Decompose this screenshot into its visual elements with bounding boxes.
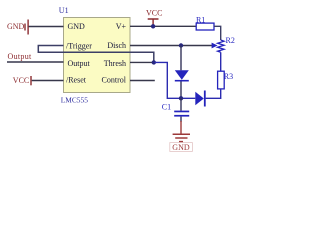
junction dot Disch / D1 column	[179, 43, 183, 47]
wire /Trigger loop to Thresh net (crosses over IC)	[38, 46, 154, 63]
svg-text:Thresh: Thresh	[104, 59, 126, 68]
R2 wiper arrow	[212, 43, 218, 49]
svg-text:U1: U1	[59, 6, 69, 15]
svg-text:LMC555: LMC555	[61, 96, 88, 105]
wire GND port to pin GND	[29, 26, 64, 28]
svg-text:Output: Output	[68, 59, 91, 68]
svg-text:GND: GND	[172, 143, 190, 152]
svg-text:VCC: VCC	[13, 76, 29, 85]
GND port symbol bars	[25, 20, 28, 35]
svg-text:V+: V+	[116, 22, 127, 31]
svg-text:Control: Control	[102, 75, 127, 84]
capacitor C1 top plate	[174, 111, 189, 113]
diode D1 (pointing down)	[175, 70, 189, 79]
svg-text:R2: R2	[226, 36, 235, 45]
op-amp U1 IC body LMC555	[64, 18, 131, 93]
svg-text:VCC: VCC	[146, 9, 162, 18]
wire R2 to R3	[220, 52, 222, 71]
svg-text:Disch: Disch	[107, 41, 126, 50]
wire VCC port to /Reset pin	[32, 80, 64, 82]
resistor R1 body	[196, 23, 214, 30]
diode D1 cathode bar	[175, 80, 189, 82]
wire Control pin stub	[130, 80, 155, 82]
VCC port symbol bar	[30, 76, 32, 85]
wire Output pin to left edge	[7, 61, 64, 63]
ground GND label box	[170, 143, 193, 152]
svg-text:/Trigger: /Trigger	[66, 42, 92, 51]
junction dot VCC on V+ wire	[151, 24, 155, 28]
diode D2 (pointing right)	[195, 92, 204, 105]
wire R1 to R2 (corner)	[214, 26, 221, 40]
wire C1 to ground	[180, 117, 182, 122]
wire Disch junction down to D1 anode	[180, 46, 182, 71]
junction dot bottom rail / C1 column	[179, 96, 183, 100]
wire R3 to D2 cathode (corner)	[206, 89, 221, 98]
svg-text:/Reset: /Reset	[66, 75, 87, 84]
wire Disch pin to R2 wiper	[130, 45, 212, 47]
wire Thresh pin to junction	[130, 61, 155, 63]
wire V+ pin to R1	[130, 25, 196, 27]
wire junction down to C1	[180, 98, 182, 110]
svg-text:C1: C1	[162, 102, 171, 111]
capacitor C1 bottom plate	[174, 115, 189, 117]
diode D2 cathode bar	[204, 91, 206, 107]
svg-text:R3: R3	[224, 72, 233, 81]
ground symbol	[173, 134, 190, 141]
wire D1 cathode to bottom rail	[180, 82, 182, 99]
svg-text:GND: GND	[68, 22, 86, 31]
potentiometer R2 zigzag body	[218, 40, 224, 52]
svg-text:GND: GND	[7, 22, 25, 31]
VCC port symbol T-bar	[148, 19, 159, 26]
resistor R3 body	[218, 71, 225, 89]
junction dot Trigger/Thresh	[152, 60, 156, 64]
wire Thresh net down to bottom rail	[155, 62, 196, 98]
svg-text:Output: Output	[8, 52, 32, 61]
